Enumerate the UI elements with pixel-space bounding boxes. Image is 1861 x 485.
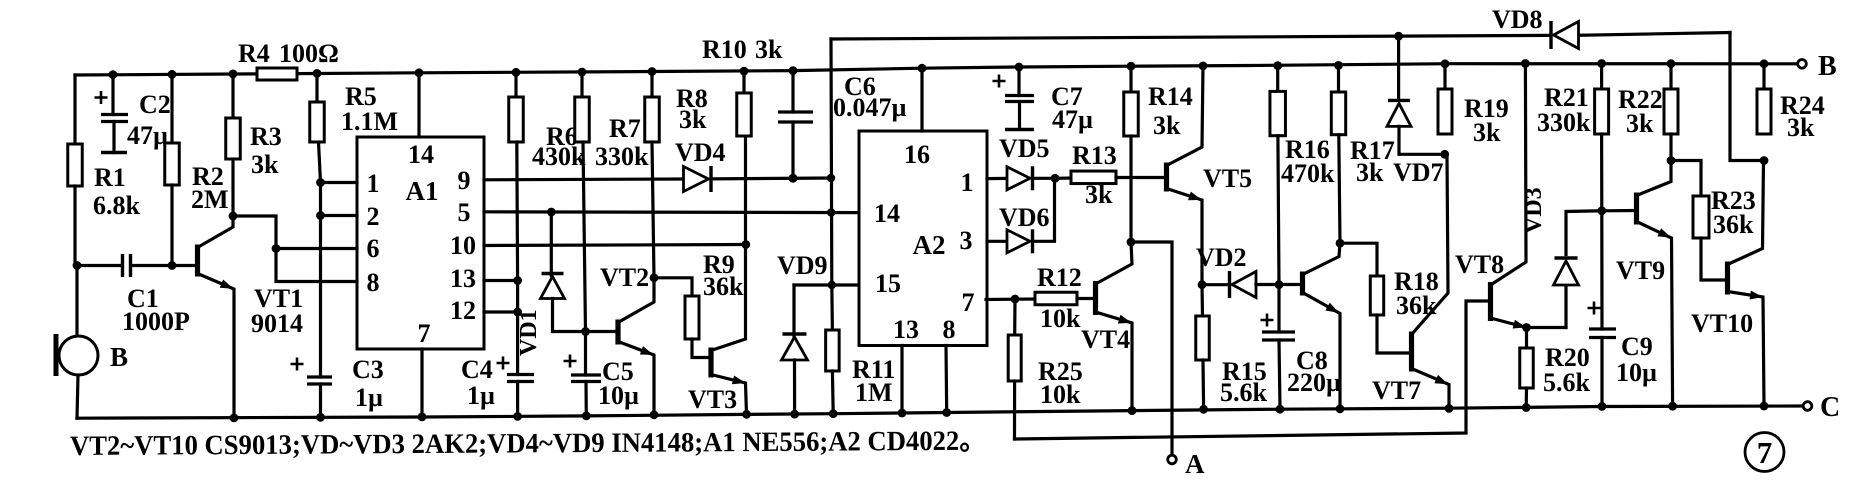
node VT2 collector (650, 273, 659, 282)
node VT4 collector / R14 bottom (1127, 238, 1136, 247)
wire R10 top lead (742, 71, 745, 93)
wire R7 bottom to VT2 base node (583, 142, 586, 332)
svg-text:VD9: VD9 (777, 251, 828, 280)
svg-text:B: B (1818, 51, 1837, 82)
svg-text:A2: A2 (913, 230, 946, 260)
terminal B (1798, 60, 1807, 69)
svg-text:A: A (1185, 449, 1205, 479)
wire A1 pin 8 (276, 249, 357, 282)
node VD7 at top-right rail (1394, 32, 1403, 41)
node R22 top (1667, 59, 1676, 68)
node R6 column at pin12 (513, 308, 522, 317)
node R15 at ground (1199, 405, 1208, 414)
node column at pin15 wire (828, 281, 836, 289)
node C3 at ground (316, 413, 325, 422)
wire A2 pin 7 to R12 (986, 297, 1035, 301)
node VT9 emitter at ground (1668, 402, 1677, 411)
node R21 top (1597, 59, 1606, 68)
node VT8 emitter / R20 / VD3 (1522, 323, 1531, 332)
wire left column top (73, 75, 76, 144)
wire A1 pin 5 to A2 pin 14 (484, 210, 859, 214)
node R10 top (740, 67, 749, 76)
svg-text:R14: R14 (1148, 82, 1193, 111)
wire R13 left lead (1055, 176, 1071, 180)
wire R7 top lead (580, 72, 583, 97)
wire C8 top lead (1277, 285, 1280, 332)
svg-text:VD8: VD8 (1492, 5, 1543, 34)
node C2 top (109, 70, 118, 79)
wire A1 pin 10 to VT3 collector (484, 245, 746, 246)
terminal C (1803, 402, 1812, 411)
svg-text:7: 7 (418, 319, 431, 348)
wire C1 left lead (77, 264, 121, 267)
svg-text:10: 10 (450, 231, 476, 260)
wire bottom ground rail (77, 406, 1803, 418)
wire R22 top lead (1669, 64, 1672, 89)
node C8 at ground (1276, 405, 1285, 414)
wire R20 to ground (1525, 388, 1529, 408)
svg-text:C9: C9 (1621, 332, 1653, 361)
svg-text:3k: 3k (251, 150, 279, 179)
node C4 at ground (513, 412, 522, 421)
capacitor C3 (291, 358, 304, 371)
wire A2 pin 16 to supply rail (920, 68, 923, 131)
node VT1 emitter at ground (230, 414, 239, 423)
wire R8 top lead (650, 72, 653, 98)
wire from top-right rail down to R24 bottom node (1730, 33, 1764, 161)
wire R18 top lead (1340, 243, 1377, 276)
node VT3 collector at pin10 wire (741, 240, 750, 249)
svg-text:10k: 10k (1040, 304, 1081, 333)
svg-text:7: 7 (962, 288, 975, 317)
node R14 top (1127, 62, 1136, 71)
node R6 column at pin13 (513, 276, 522, 285)
wire top-right rail right of VD8 (1581, 33, 1730, 36)
svg-text:6.8k: 6.8k (93, 191, 141, 220)
svg-text:R10: R10 (702, 35, 747, 64)
node VT10 emitter at ground (1760, 402, 1769, 411)
wire VT5 emitter node to VD2 (1202, 283, 1229, 286)
wire A1 pin 6 (276, 247, 357, 250)
svg-text:10k: 10k (1040, 380, 1081, 409)
svg-text:5.6k: 5.6k (1543, 368, 1591, 397)
node C1 left (73, 261, 82, 270)
wire VT2 collector to R9 top (654, 278, 692, 296)
node column at VD4 wire (827, 174, 835, 182)
svg-text:8: 8 (367, 268, 380, 297)
wire VT1 collector to trigger node (233, 216, 276, 249)
svg-text:100Ω: 100Ω (279, 39, 339, 68)
wire R14 bottom to VT4 collector node (1129, 136, 1132, 242)
transistor VT6 (1300, 272, 1305, 296)
wire R20 top lead (1525, 328, 1528, 349)
node A2 pin8 at ground (942, 408, 951, 417)
node VT6 base / VD2 / C8 (1275, 280, 1284, 289)
transistor VT3 (708, 348, 713, 378)
node R5 column at pin2 (316, 211, 325, 220)
svg-text:1M: 1M (855, 378, 893, 407)
wire VD3 to VT9 base node (1566, 211, 1602, 255)
wire A2 pin 15 (832, 283, 859, 286)
wire node A line from R25 bottom to VT8 base (1015, 301, 1490, 439)
svg-text:16: 16 (904, 140, 930, 169)
node A1 pin7 at ground (418, 413, 427, 422)
capacitor C5 (564, 355, 577, 368)
svg-text:R1: R1 (94, 163, 126, 192)
node R5 top (313, 69, 322, 78)
wire R5 bottom through pins 1,2 to C3 (319, 142, 321, 377)
svg-text:15: 15 (875, 269, 901, 298)
diode VD8 (1554, 22, 1579, 49)
node VT6 emitter at ground (1336, 405, 1345, 414)
wire R3 bottom to VT1 collector node (231, 159, 234, 216)
svg-text:3k: 3k (679, 105, 707, 134)
node R19 top (1441, 59, 1450, 68)
node VD1 at pin5 wire (547, 208, 556, 217)
transistor VT7 (1409, 332, 1414, 372)
svg-text:VD1: VD1 (516, 309, 542, 356)
wire top-right rail left of VD8 (831, 35, 1548, 39)
wire R21 bottom to VT9 base node (1600, 134, 1603, 211)
wire R16 bottom to VT6 base node (1278, 136, 1279, 285)
svg-text:VD5: VD5 (999, 134, 1050, 163)
node VT7 emitter at ground (1445, 404, 1454, 413)
wire A2 pin 1 to VD5 (987, 177, 1007, 180)
transistor VT5 (1164, 163, 1169, 192)
node VT9 base / VD3 / C9 (1597, 206, 1606, 215)
svg-text:10µ: 10µ (598, 381, 639, 410)
svg-text:VT10: VT10 (1691, 309, 1753, 338)
microphone B (59, 336, 98, 375)
wire A2 pin 13 to ground (900, 346, 903, 414)
wire C8 to ground (1279, 340, 1280, 409)
wire A2 pin15 node to VD9 (794, 283, 832, 286)
wire VT9 base (1602, 209, 1635, 213)
wire R6 top lead (514, 72, 517, 97)
node R11 at ground (829, 409, 838, 418)
svg-text:470k: 470k (1281, 159, 1335, 188)
terminal A (1168, 455, 1177, 464)
svg-text:220µ: 220µ (1287, 368, 1341, 397)
svg-text:1: 1 (961, 168, 974, 197)
wire microphone to ground rail (77, 375, 78, 418)
wire R15 top lead (1200, 285, 1204, 316)
wire C5 to ground (584, 382, 587, 416)
wire R14 top lead (1129, 66, 1132, 92)
wire A1 pin 14 to supply rail (417, 73, 420, 137)
node pin7/R25 junction (1011, 295, 1020, 304)
node R5 column at pin1 (316, 178, 325, 187)
svg-text:14: 14 (408, 140, 434, 169)
wire R15 to ground (1201, 360, 1205, 409)
wire A1 pin 9 to VD4 (484, 177, 684, 181)
svg-text:R12: R12 (1037, 263, 1082, 292)
svg-text:R4: R4 (238, 39, 270, 68)
svg-text:7: 7 (1757, 435, 1773, 470)
svg-text:1: 1 (367, 169, 380, 198)
svg-text:VD3: VD3 (1521, 187, 1547, 234)
wire VD5 cathode to R13 node (1033, 177, 1055, 180)
svg-text:R7: R7 (609, 114, 641, 143)
wire top rail left of R4 (75, 74, 257, 75)
wire A1 pin 7 to ground (420, 349, 423, 417)
svg-text:R3: R3 (250, 122, 282, 151)
svg-text:330k: 330k (1537, 108, 1591, 137)
wire A1 pin 2 (321, 214, 358, 217)
svg-text:1.1M: 1.1M (341, 107, 398, 136)
wire R5 top lead (315, 73, 318, 102)
svg-text:3k: 3k (1153, 111, 1181, 140)
svg-text:VD4: VD4 (675, 138, 726, 167)
wire VD4 cathode to C6/A2 node (712, 176, 831, 180)
svg-text:2M: 2M (191, 185, 229, 214)
svg-text:3k: 3k (1473, 118, 1501, 147)
svg-text:5.6k: 5.6k (1220, 378, 1268, 407)
node VT4 emitter at ground (1128, 406, 1137, 415)
svg-text:430k: 430k (532, 142, 586, 171)
wire R3 top lead (231, 74, 234, 118)
counter A2 (CD4022) box (859, 131, 987, 346)
node R8 top (648, 67, 657, 76)
transistor VT4 (1093, 281, 1098, 315)
wire VD1 top lead from A1 pin5 wire (550, 212, 553, 276)
wire R25 bottom through ground rail to node A line (1013, 381, 1016, 439)
node VT6 collector / R17 / R18 (1336, 239, 1345, 248)
node R24 top (1760, 59, 1769, 68)
node A1 pin14 at rail (415, 68, 424, 77)
svg-text:VD6: VD6 (999, 203, 1050, 232)
svg-text:3k: 3k (1356, 158, 1384, 187)
wire A1 pin 12 (484, 310, 518, 313)
wire R6 bottom through pins 13,12 to C4 (515, 142, 519, 375)
node R2 top (168, 70, 177, 79)
svg-text:A1: A1 (406, 176, 439, 206)
transistor VT2 (615, 320, 620, 345)
svg-text:C3: C3 (352, 355, 384, 384)
svg-text:3k: 3k (1085, 180, 1113, 209)
svg-text:3k: 3k (1626, 109, 1654, 138)
svg-text:R13: R13 (1072, 141, 1117, 170)
svg-text:36k: 36k (703, 272, 744, 301)
wire A1 pin 13 (484, 279, 518, 282)
node C9 at ground (1598, 402, 1607, 411)
wire R21 top lead (1600, 64, 1603, 90)
svg-text:14: 14 (874, 199, 900, 228)
node VT5 emitter / R15 top (1198, 280, 1207, 289)
node VD5/VD6 junction (1051, 174, 1060, 183)
node R24 bottom / VT10 collector (1760, 156, 1769, 165)
svg-text:B: B (110, 342, 128, 372)
node R16 top (1273, 61, 1282, 70)
capacitor C4 (497, 357, 510, 370)
wire VD7 to R19 bottom (1399, 126, 1445, 154)
node VT8 collector at rail (1521, 59, 1530, 68)
wire C3 to ground (319, 384, 322, 417)
svg-text:6: 6 (367, 234, 380, 263)
wire VT4 collector node to terminal A (1131, 242, 1172, 455)
node A2 pin16 at rail (918, 64, 927, 73)
transistor VT8 (1488, 282, 1493, 321)
svg-text:36k: 36k (1396, 291, 1437, 320)
svg-text:8: 8 (943, 315, 956, 344)
op-amp/timer A1 (NE556) box (357, 137, 484, 349)
wire VD9 to ground (793, 360, 796, 414)
svg-text:3k: 3k (755, 35, 783, 64)
page number 7 (1745, 433, 1784, 472)
wire VD9 top lead (792, 285, 795, 337)
wire R9 bottom to VT3 base (692, 339, 709, 358)
svg-text:9: 9 (458, 166, 471, 195)
svg-text:9014: 9014 (251, 309, 303, 338)
resistor R4 (257, 68, 297, 80)
svg-text:C: C (1820, 392, 1840, 423)
wire VD3 bottom lead (1564, 285, 1567, 328)
resistor R1 (68, 144, 83, 186)
node R2 bottom junction (168, 261, 177, 270)
wire R17 bottom to VT6 collector node (1339, 135, 1340, 244)
wire C6 top lead (791, 71, 794, 112)
node R17 top (1334, 61, 1343, 70)
wire A1 pin 1 (321, 181, 358, 184)
wire VD6 cathode up to R13 node (1033, 178, 1055, 241)
svg-text:VT3: VT3 (688, 385, 737, 414)
transistor VT10 (1725, 262, 1730, 295)
wire R19 top lead (1443, 64, 1446, 89)
svg-text:VD7: VD7 (1393, 158, 1444, 187)
wire R1 bottom to C1 node (73, 186, 76, 266)
node A2 pin13 at ground (898, 409, 907, 418)
wire C6 bottom lead (791, 122, 794, 178)
svg-text:VT8: VT8 (1455, 250, 1504, 279)
node VT5 collector at rail (1199, 62, 1208, 71)
wire C9 to ground (1600, 338, 1603, 407)
wire R22 bottom (1669, 134, 1672, 161)
wire C5 top lead (584, 332, 587, 376)
wire R2 bottom to VT1 base node (170, 185, 173, 266)
node R7 top (578, 68, 587, 77)
wire C7 top lead (1017, 67, 1020, 96)
svg-text:330k: 330k (595, 142, 649, 171)
wire supply column x831 (831, 39, 832, 330)
svg-text:12: 12 (450, 296, 476, 325)
svg-text:47µ: 47µ (1052, 105, 1093, 134)
wire C1 right lead to VT1 base (131, 264, 195, 267)
node R19 bottom / VD7 (1440, 150, 1449, 159)
node column at pin14 wire (827, 208, 835, 216)
svg-text:36k: 36k (1713, 210, 1754, 239)
wire top supply rail (297, 64, 1797, 74)
svg-text:2: 2 (367, 202, 380, 231)
svg-text:VD2: VD2 (1196, 243, 1247, 272)
wire R23 top lead (1671, 161, 1701, 197)
svg-text:1000P: 1000P (122, 307, 190, 336)
node VT2 emitter at ground (650, 410, 659, 419)
wire VD1 to VT2 base (553, 299, 617, 332)
wire R11 to ground (831, 371, 835, 414)
svg-text:3k: 3k (1787, 113, 1815, 142)
node R6 top (512, 68, 521, 77)
svg-text:C4: C4 (461, 355, 493, 384)
svg-text:VT5: VT5 (1203, 164, 1252, 193)
node VT3 emitter at ground (742, 410, 751, 419)
svg-text:3: 3 (960, 226, 973, 255)
svg-text:47µ: 47µ (127, 121, 168, 150)
wire R16 top lead (1276, 66, 1279, 92)
svg-text:1µ: 1µ (355, 383, 383, 412)
node R20 at ground (1522, 403, 1531, 412)
svg-text:13: 13 (893, 315, 919, 344)
svg-text:VT9: VT9 (1616, 256, 1665, 285)
wire R24 top lead (1762, 64, 1765, 89)
node C7 top (1015, 63, 1024, 72)
svg-text:5: 5 (458, 198, 471, 227)
node VT1 collector / R3 bottom (229, 212, 238, 221)
wire VD2 to VT6 base (1256, 283, 1301, 286)
node C6 bottom at VD4 wire (789, 174, 798, 183)
svg-text:VT7: VT7 (1372, 376, 1421, 405)
node R22 bottom / VT9 collector / R23 (1667, 156, 1676, 165)
svg-text:13: 13 (450, 264, 476, 293)
svg-text:VT2~VT10 CS9013;VD~VD3 2AK2;VD: VT2~VT10 CS9013;VD~VD3 2AK2;VD4~VD9 IN41… (70, 426, 986, 462)
wire C1 node down to microphone (75, 266, 78, 337)
svg-text:0.047µ: 0.047µ (833, 93, 907, 122)
wire A2 pin 3 to VD6 (987, 240, 1007, 243)
svg-text:VT2: VT2 (600, 263, 649, 292)
wire C7 bottom lead (1018, 102, 1021, 130)
wire C4 to ground (516, 382, 519, 417)
wire R25 top lead (1013, 299, 1016, 335)
wire C2 bottom lead (112, 122, 115, 153)
wire R2 top lead (170, 74, 173, 143)
wire VD7 from top-right rail (1397, 36, 1400, 97)
wire A2 pin 8 to ground (944, 346, 948, 413)
resistor R11 (826, 330, 840, 371)
wire R23 bottom to VT10 base (1701, 238, 1726, 280)
wire R17 top lead (1337, 65, 1340, 92)
wire R12 to VT4 base (1077, 297, 1094, 300)
svg-text:C2: C2 (139, 90, 171, 119)
node R3 top (229, 70, 238, 79)
wire R13 to VT5 base (1116, 176, 1165, 179)
wire C9 top lead (1600, 211, 1603, 329)
wire C2 top lead (111, 75, 114, 115)
wire R8 bottom to VT2 collector (652, 142, 654, 278)
svg-text:1µ: 1µ (467, 381, 495, 410)
node C5 at ground (582, 412, 591, 421)
wire VT8 emitter to VD3 (1527, 326, 1567, 329)
svg-text:10µ: 10µ (1616, 358, 1657, 387)
node C6 top (789, 66, 798, 75)
svg-text:VT4: VT4 (1081, 325, 1130, 354)
node C5 top / VT2 base (581, 327, 590, 336)
transistor VT1 (195, 245, 200, 277)
node trigger junction (272, 244, 281, 253)
wire R18 bottom to VT7 base (1377, 315, 1409, 353)
node VD9 at ground (790, 410, 799, 419)
